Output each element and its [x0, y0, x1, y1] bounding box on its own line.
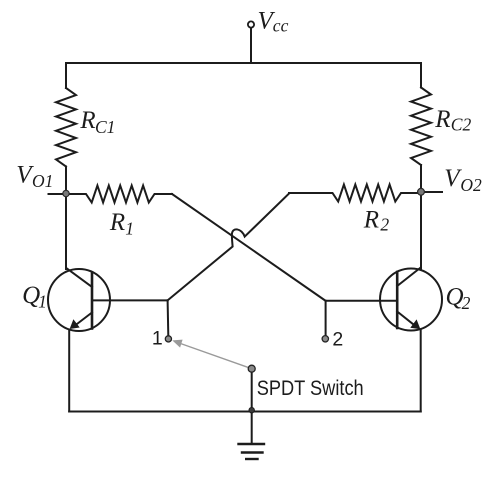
wire Vcc stem	[250, 28, 252, 64]
transistor Q2 circle	[380, 269, 442, 331]
transistor Q2 base bar	[396, 272, 399, 328]
svg-text:2: 2	[332, 328, 343, 350]
wire VO2 stub right	[421, 191, 442, 193]
ground stem	[251, 412, 253, 444]
wire right rail upper	[420, 63, 422, 88]
wire top rail	[66, 62, 421, 64]
wire Q2 emitter down	[420, 330, 422, 412]
svg-text:R: R	[79, 107, 95, 134]
ground bar 2	[242, 451, 263, 453]
transistor Q2 emitter diagonal	[397, 312, 415, 326]
node dot VO1	[63, 190, 69, 196]
wire Q1 emitter down	[68, 330, 70, 412]
wire right rail RC2 to Q2	[420, 165, 422, 269]
svg-text:C1: C1	[95, 117, 115, 137]
switch terminal 2 dot	[322, 336, 328, 342]
resistor R1	[66, 186, 172, 203]
svg-text:1: 1	[152, 328, 163, 350]
svg-text:R: R	[434, 106, 450, 133]
transistor Q1 circle	[48, 269, 110, 331]
svg-text:2: 2	[462, 293, 471, 313]
transistor Q1 emitter arrowhead	[70, 319, 80, 329]
svg-text:C2: C2	[451, 115, 472, 135]
resistor RC2	[411, 88, 431, 166]
transistor Q2 emitter arrowhead	[410, 319, 420, 329]
transistor Q2 collector diagonal	[397, 268, 421, 287]
svg-text:2: 2	[380, 214, 389, 234]
svg-text:O2: O2	[460, 175, 482, 195]
svg-text:R: R	[109, 209, 125, 236]
terminal Vcc open circle	[248, 21, 254, 27]
svg-text:R: R	[363, 206, 379, 233]
transistor Q1 emitter diagonal	[75, 313, 92, 326]
svg-text:SPDT Switch: SPDT Switch	[257, 376, 364, 400]
svg-text:1: 1	[125, 218, 134, 238]
wire node B1 to switch terminal 1	[167, 300, 170, 335]
svg-text:1: 1	[38, 292, 47, 312]
svg-text:cc: cc	[273, 16, 289, 36]
resistor R2	[289, 185, 421, 202]
ground bar 3	[246, 458, 257, 460]
wire R2 diagonal to node B1 with crossover hop	[168, 194, 289, 301]
switch pole dot	[248, 365, 255, 372]
resistor RC1	[56, 88, 76, 167]
wire VO1 stub left	[49, 193, 67, 195]
wire left rail RC1 to Q1	[65, 167, 67, 270]
node dot VO2	[418, 188, 425, 195]
transistor Q1 base bar	[91, 273, 94, 329]
svg-text:O1: O1	[32, 171, 53, 191]
wire left rail upper	[65, 63, 67, 88]
switch terminal 1 dot	[165, 336, 171, 342]
junction dot bottom rail	[249, 408, 254, 413]
switch arm arrowhead	[172, 340, 182, 348]
wire R1 diagonal to node B2	[172, 194, 326, 301]
wire node B2 to switch terminal 2	[325, 301, 327, 336]
ground bar 1	[239, 443, 265, 445]
wire Q1 base lead	[92, 299, 168, 301]
transistor Q1 collector diagonal	[66, 268, 92, 287]
wire switch pole down to bottom rail	[251, 372, 253, 412]
switch arm wire (SPDT blade)	[181, 344, 252, 369]
wire Q2 base lead	[326, 300, 398, 302]
wire bottom rail	[69, 411, 421, 413]
